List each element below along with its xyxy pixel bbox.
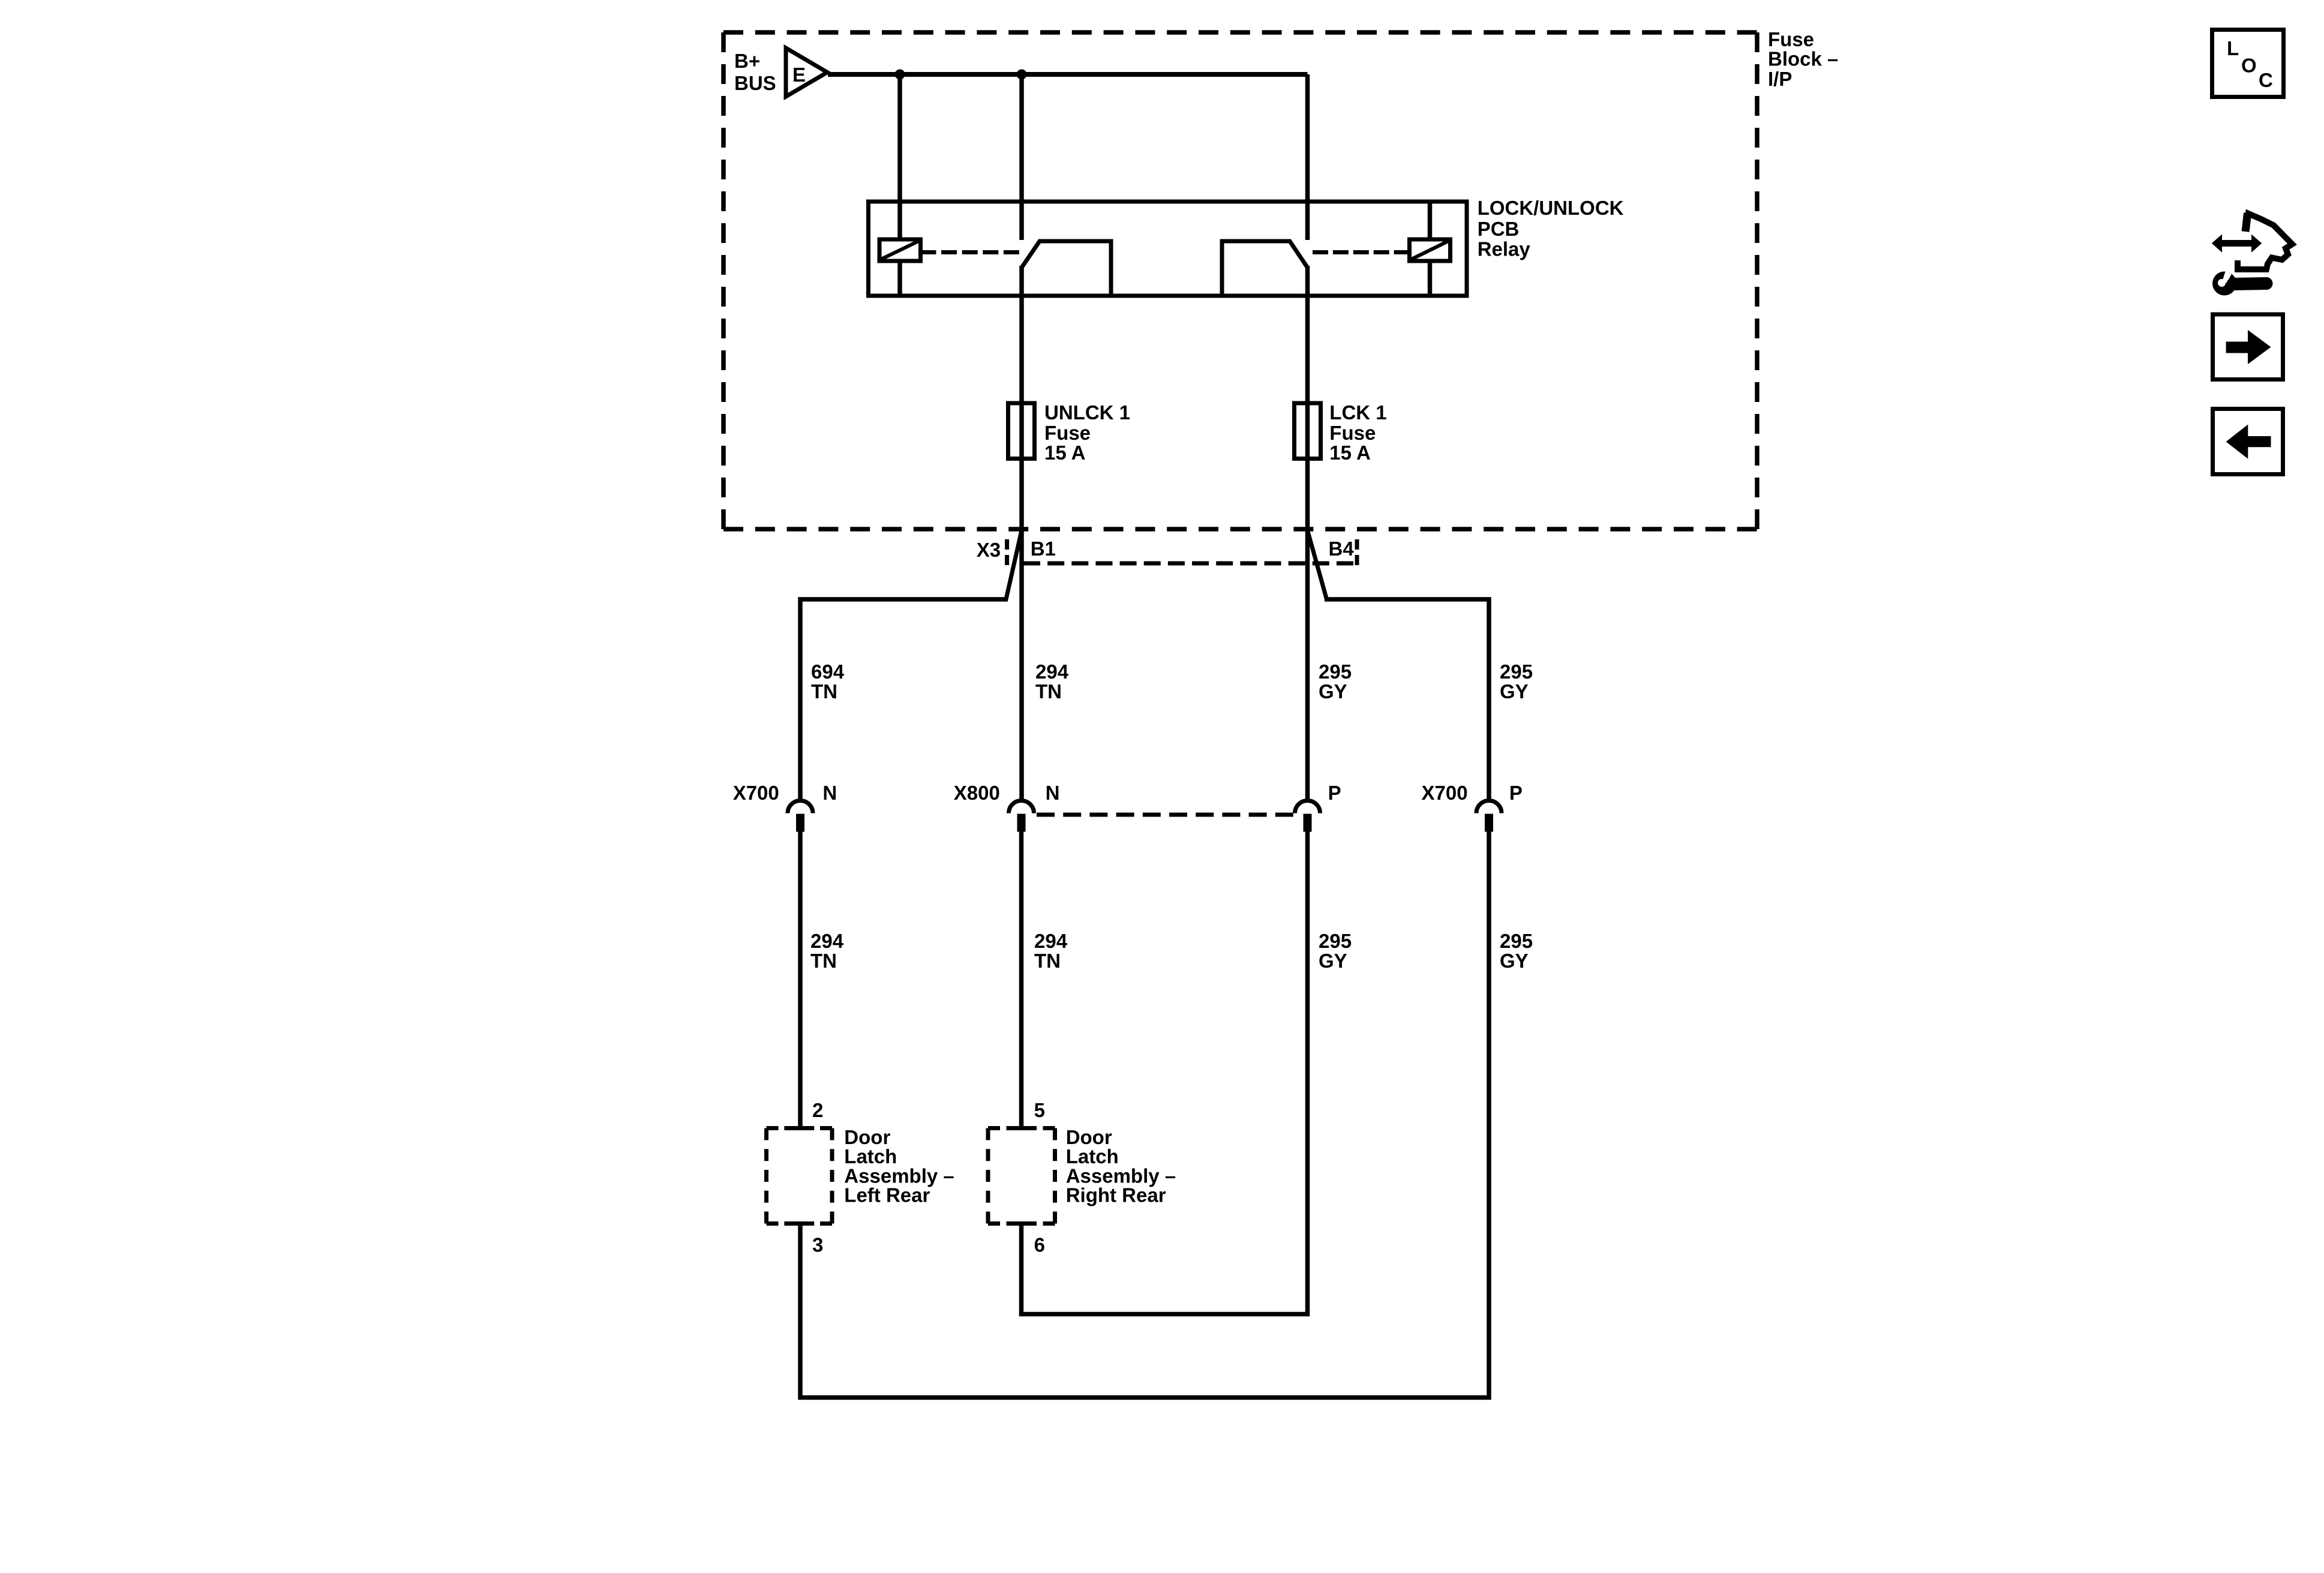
svg-text:L: L <box>2227 37 2239 59</box>
svg-text:TN: TN <box>1034 950 1061 972</box>
svg-text:6: 6 <box>1034 1234 1045 1256</box>
label wire 294 TN lower left <box>810 930 844 972</box>
wire 294 TN to right latch <box>1019 831 1024 1128</box>
label wire 295 GY lower right <box>1500 930 1533 972</box>
svg-text:TN: TN <box>1035 680 1062 703</box>
label wire 294 TN lower mid <box>1034 930 1068 972</box>
dashed control link switch2-coil2 <box>1313 250 1410 254</box>
svg-text:O: O <box>2241 55 2257 77</box>
connector X800 P <box>1295 782 1341 832</box>
svg-text:Right Rear: Right Rear <box>1066 1184 1166 1206</box>
wire 694 TN branch <box>800 599 1008 801</box>
label wire 694 TN <box>811 661 845 703</box>
svg-text:B+: B+ <box>734 50 760 72</box>
connector X800 N <box>954 782 1060 832</box>
svg-text:P: P <box>1328 782 1341 804</box>
svg-text:GY: GY <box>1319 680 1347 703</box>
svg-text:294: 294 <box>1035 661 1069 683</box>
svg-text:I/P: I/P <box>1768 68 1792 90</box>
svg-text:15 A: 15 A <box>1329 442 1370 464</box>
door latch assembly left rear box <box>767 1126 954 1224</box>
relay coil K1 (unlock) <box>879 239 921 296</box>
svg-text:E: E <box>792 64 806 86</box>
label Fuse Block - I/P <box>1768 28 1838 90</box>
connector X700 N <box>733 782 837 832</box>
svg-text:295: 295 <box>1319 930 1352 952</box>
svg-text:X700: X700 <box>1422 782 1468 804</box>
relay U1 LOCK/UNLOCK PCB Relay box <box>869 202 1467 296</box>
svg-text:LOCK/UNLOCK: LOCK/UNLOCK <box>1478 197 1624 219</box>
wire 295 GY right branch <box>1325 599 1489 801</box>
power symbol E triangle <box>786 48 827 97</box>
label wire 295 GY <box>1319 661 1352 703</box>
svg-text:2: 2 <box>812 1099 823 1121</box>
svg-text:Relay: Relay <box>1478 238 1531 260</box>
door latch assembly right rear box <box>988 1126 1176 1224</box>
svg-text:15 A: 15 A <box>1044 442 1085 464</box>
relay coil K2 (lock) <box>1410 202 1451 296</box>
svg-text:294: 294 <box>1034 930 1068 952</box>
svg-text:B1: B1 <box>1031 538 1056 560</box>
wire 295 GY down-right outer <box>800 831 1489 1398</box>
dashed tie X800 N-P <box>1037 813 1293 817</box>
svg-text:X700: X700 <box>733 782 779 804</box>
fuse F1 UNLCK 1 15A <box>1008 403 1035 459</box>
icon next-page arrow box <box>2213 314 2283 380</box>
wire 295 GY down-right inner <box>1022 831 1308 1314</box>
svg-text:Latch: Latch <box>1066 1145 1119 1167</box>
label wire 295 GY right <box>1500 661 1533 703</box>
icon LOC box <box>2212 30 2284 97</box>
svg-text:5: 5 <box>1034 1099 1045 1121</box>
wire switch2 feed <box>1305 74 1310 240</box>
fuse block dashed box <box>723 32 1757 529</box>
wire B1 splice diagonal <box>1006 530 1022 599</box>
connector X3 dashed outline <box>1007 539 1357 568</box>
relay switch S2 (lock contact) <box>1222 241 1308 296</box>
svg-text:TN: TN <box>811 680 837 703</box>
wire switch1 to fuse1 to connector <box>1019 266 1024 801</box>
svg-text:294: 294 <box>810 930 844 952</box>
wire bus horizontal <box>828 72 1308 77</box>
svg-text:Latch: Latch <box>844 1145 897 1167</box>
svg-text:UNLCK 1: UNLCK 1 <box>1044 401 1130 424</box>
node B+ BUS label <box>734 50 776 94</box>
svg-text:Block –: Block – <box>1768 48 1838 70</box>
wire coil1 feed <box>897 74 902 239</box>
connector X3 labels <box>977 538 1355 561</box>
wire switch2 to fuse2 to connector <box>1305 266 1310 801</box>
wire B4 splice diagonal <box>1308 530 1327 599</box>
svg-text:Fuse: Fuse <box>1044 422 1091 444</box>
svg-text:PCB: PCB <box>1478 218 1520 240</box>
svg-text:3: 3 <box>812 1234 823 1256</box>
svg-text:GY: GY <box>1319 950 1347 972</box>
svg-text:Left Rear: Left Rear <box>844 1184 930 1206</box>
svg-text:295: 295 <box>1500 661 1533 683</box>
svg-text:C: C <box>2259 69 2273 91</box>
relay switch S1 (unlock contact) <box>1022 241 1111 296</box>
svg-text:GY: GY <box>1500 680 1529 703</box>
svg-text:Fuse: Fuse <box>1768 28 1814 50</box>
svg-text:X800: X800 <box>954 782 1000 804</box>
svg-text:GY: GY <box>1500 950 1529 972</box>
svg-text:N: N <box>822 782 837 804</box>
svg-text:P: P <box>1509 782 1523 804</box>
svg-text:Fuse: Fuse <box>1329 422 1376 444</box>
wire switch1 feed <box>1019 74 1024 240</box>
node junction dot 2 <box>1017 70 1027 80</box>
wire 294 TN to left latch <box>798 831 803 1128</box>
dashed control link coil1-switch1 <box>921 250 1020 254</box>
svg-text:BUS: BUS <box>734 72 776 94</box>
svg-text:295: 295 <box>1500 930 1533 952</box>
svg-text:X3: X3 <box>977 539 1001 561</box>
svg-text:B4: B4 <box>1329 538 1355 560</box>
svg-text:295: 295 <box>1319 661 1352 683</box>
svg-text:LCK 1: LCK 1 <box>1329 401 1386 424</box>
icon wiring repair (double arrow, terminal outline, wrench) <box>2212 213 2292 296</box>
svg-text:TN: TN <box>810 950 837 972</box>
connector X700 P <box>1422 782 1523 832</box>
svg-text:694: 694 <box>811 661 845 683</box>
label wire 295 GY lower <box>1319 930 1352 972</box>
svg-text:N: N <box>1046 782 1060 804</box>
fuse F2 LCK 1 15A <box>1295 403 1321 459</box>
node junction dot 1 <box>895 70 905 80</box>
icon prev-page arrow box <box>2213 409 2283 475</box>
label wire 294 TN <box>1035 661 1069 703</box>
